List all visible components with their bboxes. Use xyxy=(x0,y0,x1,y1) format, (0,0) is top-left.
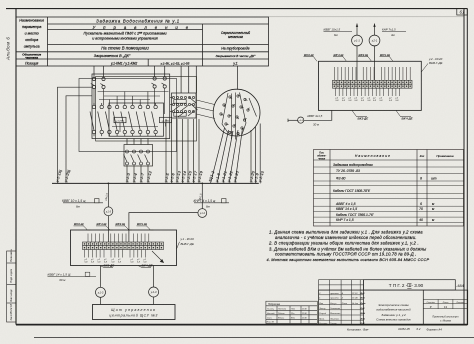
wire SA 6 to bus xyxy=(193,119,195,183)
notes text block xyxy=(267,229,430,262)
wire detail circle 5 to bus xyxy=(235,128,243,183)
feeder cable circle y.1 top xyxy=(352,24,363,81)
connector wires block to selector xyxy=(170,98,173,112)
wire box y.1 to junction circle 4 xyxy=(153,266,155,288)
wire from table to contact KM2.1 xyxy=(103,66,105,77)
frame bottom line xyxy=(16,324,467,326)
cable label VKCh-DE top box xyxy=(396,110,411,116)
wire detail circle right 3 to bus xyxy=(259,124,261,184)
sheet top edge line xyxy=(6,8,467,10)
faint ghost fold line top right xyxy=(269,16,465,18)
terminal box y.1 outgoing wire groups xyxy=(85,250,146,258)
starter block outline A xyxy=(92,74,170,139)
enclosure boundary rectangle xyxy=(79,79,177,152)
wire SQ contact 4 to bus xyxy=(147,139,149,184)
main contact column 4 xyxy=(113,103,119,136)
specification table texts xyxy=(317,151,454,222)
wire SA 5 to bus xyxy=(187,119,189,183)
contactor coil KM1 xyxy=(114,117,126,122)
selector switch box C xyxy=(172,93,197,118)
wire from table to selector SA terminal 3 xyxy=(195,66,197,93)
wire block to bus left 1 xyxy=(58,87,93,183)
title block revision grid top xyxy=(319,280,364,290)
wire from table to contact KM1.2 xyxy=(154,66,156,77)
auxiliary contact KM1.2 xyxy=(151,77,156,88)
detail circle internal housing outline xyxy=(222,93,257,140)
cable label VKCh-DE bottom xyxy=(138,266,151,268)
limit switch contact 1 xyxy=(124,150,129,165)
wire SA 2 to bus xyxy=(171,119,173,183)
cable label VKZ-DE top box xyxy=(352,110,367,116)
title block small texts xyxy=(318,292,366,325)
control cabinet ShchSU box xyxy=(93,305,176,320)
corner stamp box (sheet number) xyxy=(457,9,468,15)
title block designation strip xyxy=(364,280,456,290)
bus junction node 1 xyxy=(108,183,110,185)
main contact column 8 xyxy=(144,103,150,136)
wire box y.1 to junction circle 3 xyxy=(100,266,102,288)
cable junction circle 1 xyxy=(104,183,113,242)
sheet bottom edge line xyxy=(34,337,474,339)
wire detail circle 3 to bus xyxy=(223,131,233,183)
wire SQ contact 3 to bus xyxy=(140,139,142,184)
wire detail circle right 1 to bus xyxy=(250,130,252,183)
wire detail circle right 2 to bus xyxy=(255,127,257,183)
cable trunk bus line xyxy=(52,182,259,184)
starter block outline A2 xyxy=(96,77,197,142)
contactor inner box B xyxy=(109,103,164,136)
wire SA 3 to bus xyxy=(176,119,178,183)
wire SA 4 to bus xyxy=(182,119,184,183)
junction circle y.2 feed xyxy=(288,110,332,123)
wire SQ contact 1 to bus xyxy=(126,139,128,184)
limit switch contact 4 xyxy=(145,150,150,165)
internal rail wires of starter block xyxy=(94,88,169,132)
bus junction node 2 xyxy=(201,183,203,185)
wire from table to selector SA terminal 1 xyxy=(180,66,182,93)
cable label VKZ-DE bottom xyxy=(100,266,113,268)
wire detail circle 4 to bus xyxy=(229,130,238,183)
wire from table to detail circle xyxy=(237,66,239,90)
wire detail circle 1 to bus xyxy=(211,128,225,183)
main contact column 3 xyxy=(105,103,111,136)
frame right double line xyxy=(463,9,465,325)
selector switch SA contacts xyxy=(172,96,197,117)
terminal box y.1 comb wires xyxy=(88,234,149,243)
limit switch contact 2 xyxy=(131,150,136,165)
wire block to bus left 2 xyxy=(66,96,92,184)
frame left line xyxy=(15,9,17,325)
main contact column 2 xyxy=(98,103,104,136)
terminal box y.2 comb wires xyxy=(334,67,410,80)
wire from table to selector SA terminal 2 xyxy=(188,66,190,93)
contactor coil KM2 xyxy=(160,117,172,122)
title block main frame xyxy=(319,290,468,325)
wire from table to contact KM1.1 xyxy=(93,66,95,77)
limit switch box SQ xyxy=(124,145,153,167)
main contact column 6 xyxy=(129,103,135,136)
cable junction circle 3 xyxy=(96,287,106,304)
terminal strip y.1 xyxy=(83,242,164,250)
main contact column 7 xyxy=(136,103,142,136)
label y.1-KS20 xyxy=(177,242,180,249)
approval mini table xyxy=(266,301,317,323)
label y.2-KS20 xyxy=(421,64,428,73)
actuator terminal box y.1 xyxy=(71,230,177,266)
title block right texts xyxy=(427,301,466,323)
cable junction circle 2 xyxy=(129,183,207,242)
title block centre texts xyxy=(376,303,411,321)
main contact column 5 xyxy=(121,103,127,136)
limit switch contact 3 xyxy=(138,150,143,165)
wire SA 7 to bus xyxy=(198,119,200,183)
auxiliary contact KM2.2 xyxy=(162,77,167,88)
main contact column 1 xyxy=(90,103,96,136)
connector wires selector to detail circle xyxy=(197,100,215,119)
terminal box y.2 outgoing wire groups xyxy=(336,88,400,96)
parameter table header texts xyxy=(19,18,256,65)
wire SQ contact 2 to bus xyxy=(133,139,135,184)
wire detail circle 2 to bus xyxy=(217,130,229,183)
leader arrow inside box to KS20 xyxy=(152,251,164,263)
specification table grid xyxy=(314,150,464,227)
detail circle terminals xyxy=(220,95,249,136)
terminal strip y.2 xyxy=(333,80,413,88)
feeder cable circle y.2 top xyxy=(369,24,380,81)
parameter table grid xyxy=(16,17,269,66)
wire from table to contact KM2.2 xyxy=(164,66,166,77)
main contact column 9 xyxy=(152,103,158,136)
actuator terminal box y.2 xyxy=(319,61,422,110)
auxiliary contact KM1.1 xyxy=(91,77,96,88)
left margin stamp box xyxy=(7,251,16,322)
wire SA 1 to bus xyxy=(165,119,167,183)
texts below frame xyxy=(347,327,442,331)
valve actuator detail circle xyxy=(213,89,260,136)
auxiliary contact KM2.1 xyxy=(100,77,105,88)
cable junction circle 4 xyxy=(149,287,159,305)
